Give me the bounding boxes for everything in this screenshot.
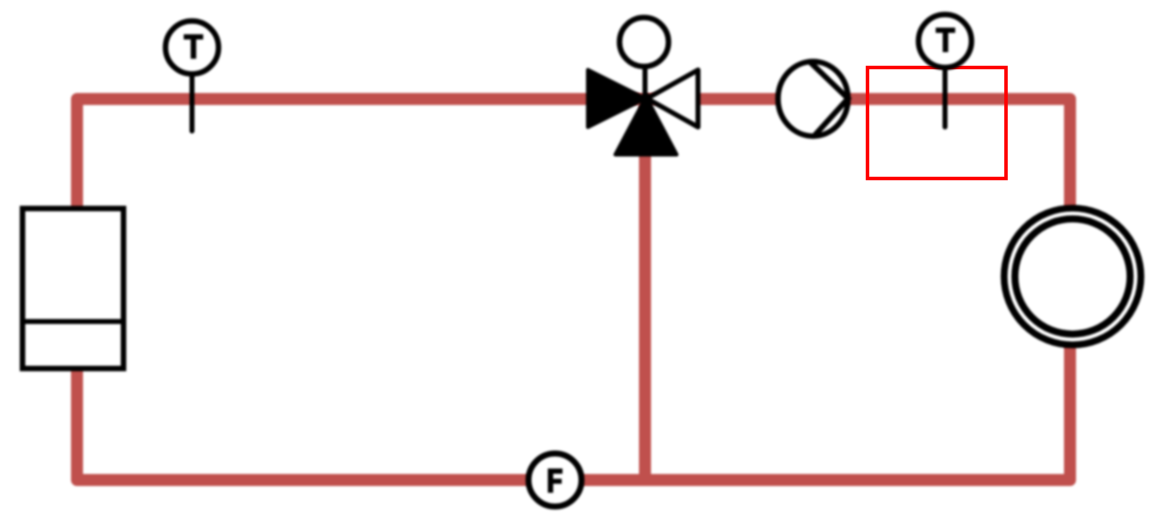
- load outer circle: [1004, 208, 1141, 345]
- valve center junction: [640, 93, 652, 105]
- sensor T2 circle: [919, 15, 972, 68]
- sensor T1 label T: [184, 34, 204, 59]
- sensor F1 circle: [529, 454, 582, 507]
- pump impeller chevron: [810, 62, 848, 135]
- red highlight box around sensor T2: [868, 68, 1007, 179]
- sensor T2 label T: [936, 28, 956, 53]
- boiler divider line: [20, 319, 126, 324]
- valve actuator stem: [643, 68, 648, 99]
- sensor T2 probe stem: [943, 68, 948, 127]
- wire valve branch pipe: [639, 99, 651, 480]
- pump P1: [778, 62, 848, 137]
- sensor F1 label F: [548, 469, 563, 493]
- sensor T1 circle: [166, 21, 219, 74]
- sensor T1 probe stem: [190, 74, 195, 131]
- valve actuator circle: [620, 18, 669, 67]
- wire main loop pipe: [77, 99, 1070, 480]
- load inner circle: [1015, 219, 1130, 334]
- valve right port triangle: [647, 70, 698, 127]
- valve left port triangle: [588, 70, 645, 127]
- temperature sensor T2: [919, 15, 972, 128]
- load / radiator L1: [1004, 208, 1141, 345]
- boiler B1: [20, 209, 126, 369]
- pump casing circle: [778, 62, 848, 137]
- boiler body: [23, 209, 124, 369]
- flow sensor F1: [529, 454, 582, 507]
- three-way mixing valve V1: [588, 18, 698, 155]
- valve bottom port triangle: [616, 97, 677, 155]
- temperature sensor T1: [166, 21, 219, 131]
